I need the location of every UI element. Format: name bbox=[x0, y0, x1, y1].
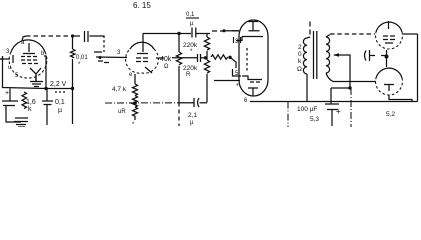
svg-text:+: + bbox=[5, 90, 9, 97]
svg-text:0,1: 0,1 bbox=[186, 12, 195, 18]
svg-text:µ: µ bbox=[58, 107, 62, 114]
svg-text:4,7 k: 4,7 k bbox=[112, 86, 127, 93]
svg-text:0,1: 0,1 bbox=[55, 99, 65, 106]
svg-text:uR: uR bbox=[118, 109, 126, 115]
svg-text:220k: 220k bbox=[183, 42, 198, 49]
svg-text:40k: 40k bbox=[160, 56, 172, 63]
svg-text:µ: µ bbox=[190, 120, 194, 126]
svg-text:5,2: 5,2 bbox=[386, 111, 395, 118]
svg-text:220k: 220k bbox=[183, 65, 198, 72]
svg-text:2: 2 bbox=[298, 44, 302, 51]
svg-text:k: k bbox=[28, 106, 32, 113]
svg-text:Ω: Ω bbox=[164, 64, 169, 70]
svg-text:*: * bbox=[236, 83, 239, 90]
svg-text:0,01: 0,01 bbox=[76, 55, 88, 61]
svg-text:2,1: 2,1 bbox=[188, 112, 197, 119]
svg-text:5,3: 5,3 bbox=[310, 116, 319, 123]
svg-text:2,2 V: 2,2 V bbox=[50, 81, 67, 88]
svg-text:u: u bbox=[8, 65, 11, 71]
svg-text:Ω: Ω bbox=[297, 66, 302, 73]
svg-text:6. 15: 6. 15 bbox=[133, 1, 151, 10]
svg-text:100 µF: 100 µF bbox=[297, 106, 317, 113]
svg-text:0: 0 bbox=[298, 51, 302, 58]
svg-text:R: R bbox=[186, 72, 191, 78]
svg-text:1,6: 1,6 bbox=[26, 99, 36, 106]
svg-text:µ: µ bbox=[190, 21, 194, 27]
svg-text:+: + bbox=[336, 107, 341, 116]
